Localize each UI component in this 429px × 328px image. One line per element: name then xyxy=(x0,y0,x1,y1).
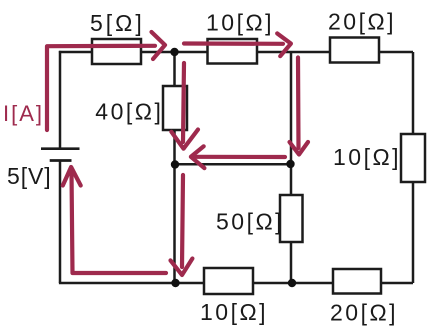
current arrow path 2 shaft (over 10ohm top) xyxy=(184,41,283,45)
current arrow path 4 shaft (middle leftward) xyxy=(196,155,285,159)
svg-text:5[Ω]: 5[Ω] xyxy=(90,10,145,36)
svg-text:40[Ω]: 40[Ω] xyxy=(95,99,163,125)
wire middle horizontal xyxy=(175,163,292,166)
svg-text:10[Ω]: 10[Ω] xyxy=(200,299,268,325)
resistor R7 10ohm bottom body xyxy=(204,268,253,294)
node junction dot bottom right xyxy=(288,279,296,287)
node junction dot middle right xyxy=(286,160,294,168)
wire right vertical xyxy=(412,52,415,283)
current arrow path 1 head xyxy=(152,32,166,59)
resistor R1 5ohm body xyxy=(92,39,141,64)
node junction dot A top xyxy=(170,48,178,56)
wire left vertical lower (battery - to bottom) xyxy=(59,161,62,284)
wire left vertical upper (to battery +) xyxy=(59,51,62,149)
current arrow path 2 head xyxy=(277,33,291,56)
current arrow path 7 head xyxy=(63,167,81,186)
node junction dot middle left xyxy=(171,160,179,168)
wire middle vertical A xyxy=(173,52,176,283)
current arrow path 3 head xyxy=(290,142,309,155)
current arrow path 4 head xyxy=(191,146,205,168)
current arrow path 7 shaft (bottom leftward + up to battery) xyxy=(72,172,167,273)
current arrow path 6 head xyxy=(171,259,193,276)
current arrow path 1 shaft (left vertical + top horizontal) xyxy=(47,46,155,130)
current arrow path 5 head xyxy=(171,130,198,149)
node junction dot bottom left xyxy=(171,279,179,287)
svg-text:10[Ω]: 10[Ω] xyxy=(333,144,401,170)
wire top horizontal xyxy=(59,51,413,54)
svg-text:50[Ω]: 50[Ω] xyxy=(216,209,284,235)
resistor R2 10ohm top body xyxy=(208,39,258,64)
current arrow path 6 shaft (down to bottom node) xyxy=(182,175,183,267)
resistor R5 10ohm right body xyxy=(401,134,425,182)
svg-text:20[Ω]: 20[Ω] xyxy=(330,300,398,326)
battery E1 short plate xyxy=(50,159,72,162)
current arrow path 3 shaft (down right branch) xyxy=(296,58,301,149)
wire middle vertical B xyxy=(290,52,293,283)
svg-text:10[Ω]: 10[Ω] xyxy=(206,10,274,36)
battery E1 long plate xyxy=(41,147,80,150)
svg-text:I[A]: I[A] xyxy=(3,101,44,126)
svg-text:5[V]: 5[V] xyxy=(7,163,52,189)
resistor R6 50ohm body xyxy=(280,195,303,242)
resistor R8 20ohm bottom body xyxy=(333,269,381,294)
resistor R4 40ohm body xyxy=(163,86,187,130)
resistor R3 20ohm top body xyxy=(330,38,379,63)
svg-text:20[Ω]: 20[Ω] xyxy=(328,8,396,34)
current arrow path 5 shaft (down through 40ohm) xyxy=(183,63,184,142)
wire bottom horizontal xyxy=(59,282,413,285)
